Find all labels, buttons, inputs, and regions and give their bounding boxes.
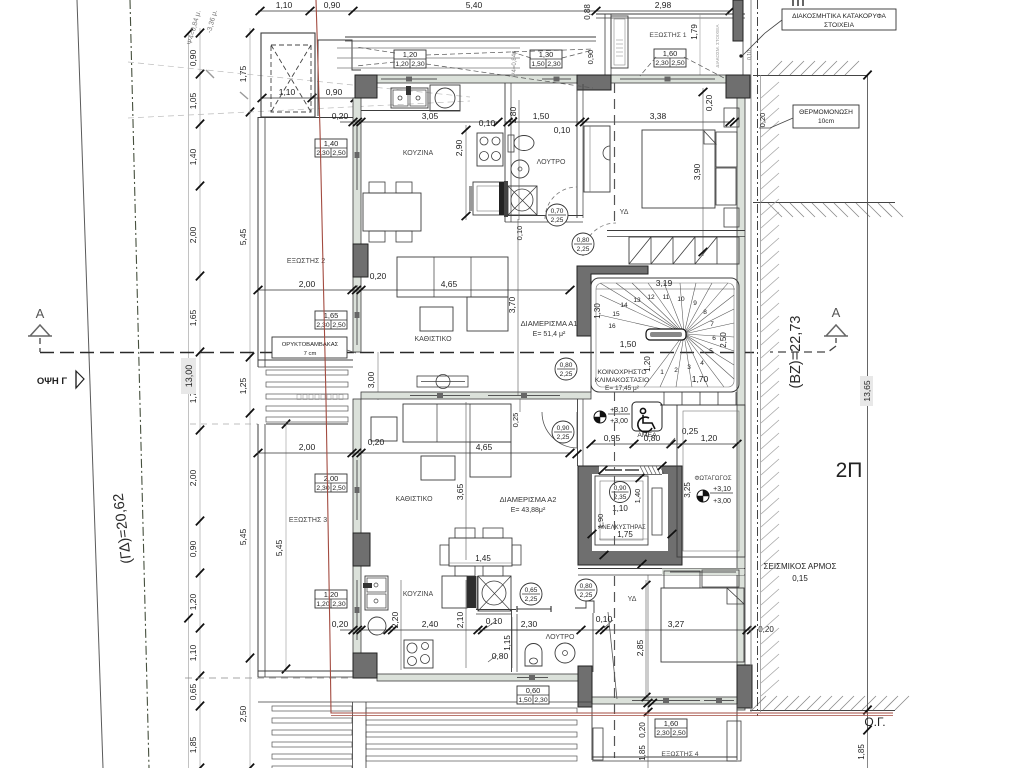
svg-text:E= 17,45 μ²: E= 17,45 μ² xyxy=(605,385,640,392)
svg-text:1,65: 1,65 xyxy=(324,311,339,320)
lower pergola right group xyxy=(366,708,577,713)
svg-text:ΚΑΘΙΣΤΙΚΟ: ΚΑΘΙΣΤΙΚΟ xyxy=(414,336,452,343)
balcony 1 side edges xyxy=(604,14,606,75)
svg-text:0,25: 0,25 xyxy=(682,426,699,436)
bath A2 door threshold xyxy=(517,608,551,610)
svg-text:2,30: 2,30 xyxy=(655,60,668,67)
window box 1,40 xyxy=(315,139,347,157)
shaft corner ticks xyxy=(599,466,608,474)
oven unit A1 xyxy=(473,182,504,215)
svg-text:1,30: 1,30 xyxy=(593,303,602,319)
west wall band A1 xyxy=(353,98,361,352)
slat detail marks xyxy=(297,395,301,400)
svg-text:2,30: 2,30 xyxy=(316,150,329,157)
dim 2,10 rotated xyxy=(465,580,467,668)
svg-text:1,70: 1,70 xyxy=(692,374,709,384)
armchair A2 xyxy=(371,417,397,441)
dim 3,65 rotated xyxy=(465,402,467,560)
plot boundary dash-dot line xyxy=(130,0,149,768)
svg-text:3,19: 3,19 xyxy=(656,278,673,288)
shower A1 xyxy=(508,186,537,215)
svg-text:0,90: 0,90 xyxy=(557,425,570,432)
washing machine A1 xyxy=(430,85,460,111)
svg-text:0,20: 0,20 xyxy=(368,437,385,447)
window box 1,60 balcony4 xyxy=(655,719,687,737)
svg-text:ΚΑΘΙΣΤΙΚΟ: ΚΑΘΙΣΤΙΚΟ xyxy=(395,496,433,503)
svg-text:1,20: 1,20 xyxy=(316,601,329,608)
neighbour line mid xyxy=(753,202,895,204)
svg-text:0,20: 0,20 xyxy=(370,271,387,281)
svg-text:2,25: 2,25 xyxy=(525,596,538,603)
dim row A2 kitchen xyxy=(340,629,581,631)
svg-text:3,00: 3,00 xyxy=(366,371,376,388)
bath A2 east wall xyxy=(592,613,594,672)
svg-text:0,90: 0,90 xyxy=(614,485,627,492)
svg-text:8: 8 xyxy=(703,309,707,316)
window sill marks west xyxy=(356,120,358,190)
column kitchen-entry xyxy=(577,75,611,90)
dashed extension line south A2 xyxy=(185,677,352,679)
svg-text:0,80: 0,80 xyxy=(492,651,509,661)
svg-text:(ΒΖ)=22,73: (ΒΖ)=22,73 xyxy=(788,316,804,389)
decorative elements label box xyxy=(782,9,896,30)
bed A2 xyxy=(661,588,744,662)
svg-text:3,38: 3,38 xyxy=(650,111,667,121)
spiral stair fan xyxy=(600,283,684,334)
dim 3,00 rotated near balcony xyxy=(377,352,379,400)
neighbour bottom edge xyxy=(750,710,895,712)
dim row A2 living xyxy=(258,452,570,454)
svg-text:3,65: 3,65 xyxy=(455,483,465,500)
svg-text:ΟΡΥΚΤΟΒΑΜΒΑΚΑΣ: ΟΡΥΚΤΟΒΑΜΒΑΚΑΣ xyxy=(282,342,339,348)
svg-text:10cm: 10cm xyxy=(818,118,835,125)
svg-text:1,45: 1,45 xyxy=(475,554,491,563)
light well level marker xyxy=(697,490,709,502)
svg-text:2,25: 2,25 xyxy=(560,371,573,378)
svg-text:0,20: 0,20 xyxy=(758,113,767,128)
structural L-wall stair xyxy=(577,266,648,336)
window sill marks south bedroom xyxy=(632,700,700,702)
radiator unit A1 xyxy=(417,376,468,387)
red regulation line xyxy=(316,0,893,713)
svg-text:0,65: 0,65 xyxy=(525,587,538,594)
toilet A2 xyxy=(525,644,542,667)
decorative label leader xyxy=(742,20,782,56)
svg-text:1,90: 1,90 xyxy=(596,514,605,529)
svg-text:3: 3 xyxy=(687,364,691,371)
svg-text:ΚΛΙΜΑΚΟΣΤΑΣΙΟ: ΚΛΙΜΑΚΟΣΤΑΣΙΟ xyxy=(595,377,650,384)
window box 1,20 top xyxy=(394,50,426,68)
svg-text:7 cm: 7 cm xyxy=(304,351,317,357)
svg-text:13,00: 13,00 xyxy=(184,365,194,388)
svg-text:2,50: 2,50 xyxy=(671,60,684,67)
svg-text:1,50: 1,50 xyxy=(533,111,550,121)
middle wall band between A1 and A2 xyxy=(361,392,591,399)
svg-text:0,90: 0,90 xyxy=(326,87,343,97)
kitchen table A1 xyxy=(363,193,421,231)
overall chain line 13,00 xyxy=(188,33,190,768)
svg-text:1,65: 1,65 xyxy=(188,309,198,326)
dim 13,65 rotated xyxy=(860,376,873,406)
svg-text:Ψ4=0,84μ: Ψ4=0,84μ xyxy=(512,50,518,78)
dining table A2 xyxy=(449,538,512,566)
svg-text:2,40: 2,40 xyxy=(422,619,439,629)
balcony 3 west edge xyxy=(257,424,259,677)
svg-text:2,30: 2,30 xyxy=(521,619,538,629)
straight stair flight xyxy=(629,237,739,264)
svg-text:+3,00: +3,00 xyxy=(713,498,731,505)
svg-text:ΦΩΤΑΓΩΓΟΣ: ΦΩΤΑΓΩΓΟΣ xyxy=(694,475,731,482)
svg-text:2,00: 2,00 xyxy=(299,279,316,289)
svg-text:ΚΟΙΝΟΧΡΗΣΤΟ: ΚΟΙΝΟΧΡΗΣΤΟ xyxy=(597,369,646,376)
entry recess outline top-left xyxy=(318,40,361,116)
sofa A2 xyxy=(403,404,511,442)
dimension chain 2 xyxy=(249,28,251,768)
svg-text:2,25: 2,25 xyxy=(551,217,564,224)
sofa chaise A1 xyxy=(467,297,508,331)
svg-text:0,20: 0,20 xyxy=(332,111,349,121)
svg-text:4,65: 4,65 xyxy=(476,442,493,452)
kitchen sink unit A2 xyxy=(365,576,388,610)
svg-text:2,50: 2,50 xyxy=(332,485,345,492)
svg-text:2,25: 2,25 xyxy=(577,246,590,253)
svg-text:0,65: 0,65 xyxy=(188,683,198,700)
east boundary solid xyxy=(750,0,752,712)
svg-text:2,30: 2,30 xyxy=(656,730,669,737)
thermal label leader xyxy=(759,118,793,128)
thermal insulation label box xyxy=(793,105,859,128)
north wall band kitchen xyxy=(377,75,577,83)
closet A1 bedroom xyxy=(584,126,610,192)
svg-text:1,50: 1,50 xyxy=(518,697,531,704)
svg-text:0,80: 0,80 xyxy=(560,362,573,369)
planter dashed X xyxy=(271,45,311,112)
dim 2,80 rotated xyxy=(518,100,520,220)
svg-text:2Π: 2Π xyxy=(836,459,863,482)
coffee table A2 xyxy=(421,456,455,480)
plot line east xyxy=(867,75,869,730)
south wall band A2 kitchen xyxy=(377,674,578,681)
svg-text:0,25: 0,25 xyxy=(511,413,520,428)
svg-text:ΚΟΥΖΙΝΑ: ΚΟΥΖΙΝΑ xyxy=(403,591,434,598)
window box 0,60 xyxy=(517,686,549,704)
elevator shaft walls xyxy=(578,466,682,565)
svg-text:0,20: 0,20 xyxy=(704,94,714,111)
svg-text:1,20: 1,20 xyxy=(701,433,718,443)
svg-text:4,65: 4,65 xyxy=(441,279,458,289)
svg-text:5: 5 xyxy=(709,348,713,355)
partition dashed bedroom xyxy=(614,83,616,223)
svg-text:0,80: 0,80 xyxy=(580,583,593,590)
column south A2 left xyxy=(578,666,592,707)
svg-text:ΛΟΥΤΡΟ: ΛΟΥΤΡΟ xyxy=(546,634,575,641)
svg-text:7: 7 xyxy=(710,321,714,328)
svg-text:12: 12 xyxy=(647,294,655,301)
svg-text:11: 11 xyxy=(663,294,670,301)
window box 1,60 top xyxy=(654,49,686,67)
svg-text:0,90: 0,90 xyxy=(188,540,198,557)
svg-text:2,50: 2,50 xyxy=(238,705,248,722)
svg-text:0,10: 0,10 xyxy=(515,226,524,241)
level marker vestibule xyxy=(594,411,606,423)
svg-text:1,60: 1,60 xyxy=(663,49,678,58)
nightstand A1 top xyxy=(724,108,739,127)
bathroom A1 east wall xyxy=(576,84,578,218)
column west mid xyxy=(353,244,368,277)
upper pergola slats xyxy=(337,47,520,49)
window sill marks middle band xyxy=(410,395,470,397)
svg-text:0,20: 0,20 xyxy=(332,619,349,629)
dim row A2 bedroom xyxy=(478,629,752,631)
svg-text:ΔΙΑΚΟΣΜΗΤΙΚΑ ΚΑΤΑΚΟΡΥΦΑ: ΔΙΑΚΟΣΜΗΤΙΚΑ ΚΑΤΑΚΟΡΥΦΑ xyxy=(792,13,886,20)
svg-text:1,50: 1,50 xyxy=(531,61,544,68)
projection leader dashed top-left xyxy=(128,62,470,97)
svg-text:2,85: 2,85 xyxy=(635,639,645,656)
dim row living A1 xyxy=(258,289,570,291)
dim 1,45 dining xyxy=(449,562,512,564)
svg-text:13,65: 13,65 xyxy=(862,380,872,402)
svg-text:3,70: 3,70 xyxy=(507,296,517,313)
svg-text:0,10: 0,10 xyxy=(554,125,571,135)
round basin A2 xyxy=(368,617,386,635)
stair wall upper xyxy=(607,230,745,232)
svg-text:E= 43,88μ²: E= 43,88μ² xyxy=(511,507,546,514)
svg-text:1,20: 1,20 xyxy=(403,50,418,59)
elevator door sill xyxy=(599,465,662,467)
svg-text:2,35: 2,35 xyxy=(614,494,627,501)
toilet A1 xyxy=(508,135,514,152)
balcony 2 west edge xyxy=(257,117,259,367)
cabinet A2 xyxy=(442,576,467,608)
svg-text:13: 13 xyxy=(633,297,641,304)
column west south xyxy=(353,653,377,678)
svg-text:ΟΨΗ Γ: ΟΨΗ Γ xyxy=(37,376,68,387)
svg-text:1,85: 1,85 xyxy=(638,745,647,761)
svg-text:1,20: 1,20 xyxy=(395,61,408,68)
dim 1,79 rotated xyxy=(699,14,701,75)
svg-text:3,05: 3,05 xyxy=(422,111,439,121)
hatch top neighbour xyxy=(768,61,782,75)
door circle 0,70 xyxy=(546,204,568,226)
svg-text:1,79: 1,79 xyxy=(690,24,699,40)
door arc A2 entry xyxy=(542,412,577,448)
svg-text:3,27: 3,27 xyxy=(668,619,685,629)
north wall band bedroom A1 xyxy=(611,75,726,83)
column top-right xyxy=(726,75,750,98)
window box 2,00 xyxy=(315,474,347,492)
svg-text:9: 9 xyxy=(693,300,697,307)
window box 1,65 xyxy=(315,311,347,329)
door circle elevator xyxy=(610,482,631,503)
dim 3,19 stair xyxy=(596,288,735,290)
west wall band A2 xyxy=(353,399,361,674)
hatch mid neighbour xyxy=(768,203,782,217)
svg-text:ΕΞΩΣΤΗΣ 2: ΕΞΩΣΤΗΣ 2 xyxy=(287,258,325,265)
svg-text:0,20: 0,20 xyxy=(638,722,647,738)
balcony 4 planters xyxy=(593,728,603,760)
svg-text:0,60: 0,60 xyxy=(526,686,541,695)
svg-text:1,20: 1,20 xyxy=(188,593,198,610)
svg-text:6: 6 xyxy=(712,335,716,342)
fridge dark A2 xyxy=(467,576,476,608)
kitchen counter A1 xyxy=(361,110,460,112)
svg-text:10: 10 xyxy=(677,296,685,303)
balcony 1 top edge xyxy=(596,13,745,15)
dim 2,85 rotated xyxy=(645,580,647,700)
svg-text:2,00: 2,00 xyxy=(188,469,198,486)
pergola slats above balcony3 xyxy=(266,370,348,375)
svg-text:1,30: 1,30 xyxy=(539,50,554,59)
balcony 1 planter xyxy=(611,16,628,68)
svg-text:ΥΔ: ΥΔ xyxy=(620,209,629,216)
dim row kitchen xyxy=(340,121,498,123)
svg-text:2,30: 2,30 xyxy=(534,697,547,704)
neighbour building top edge xyxy=(753,75,868,77)
bathroom A2 west wall xyxy=(476,576,478,609)
bed A1 xyxy=(642,130,715,208)
svg-text:2,50: 2,50 xyxy=(332,322,345,329)
svg-text:0,95: 0,95 xyxy=(604,433,621,443)
window sill marks north xyxy=(381,78,437,80)
svg-text:0,90: 0,90 xyxy=(586,50,595,65)
svg-text:0,88: 0,88 xyxy=(583,4,592,20)
svg-text:1,40: 1,40 xyxy=(633,489,642,504)
spiral newel xyxy=(646,329,686,340)
svg-text:16: 16 xyxy=(608,323,616,330)
svg-text:ΔΙΑΜΕΡΙΣΜΑ Α1: ΔΙΑΜΕΡΙΣΜΑ Α1 xyxy=(521,319,578,328)
balcony 3 bottom edge xyxy=(258,670,353,672)
lower pergola left group xyxy=(272,706,352,711)
dim row vestibule xyxy=(591,443,737,445)
svg-text:ΣΕΙΣΜΙΚΟΣ ΑΡΜΟΣ: ΣΕΙΣΜΙΚΟΣ ΑΡΜΟΣ xyxy=(764,562,837,571)
balcony 2 bottom edge xyxy=(258,359,353,361)
svg-text:ΣΤΟΙΧΕΙΑ: ΣΤΟΙΧΕΙΑ xyxy=(824,22,855,29)
svg-text:5,40: 5,40 xyxy=(466,0,483,10)
svg-text:2,90: 2,90 xyxy=(454,139,464,156)
dimension chain 3 balcony xyxy=(285,424,287,669)
leader lines from window boxes xyxy=(356,47,395,53)
svg-text:2,30: 2,30 xyxy=(411,61,424,68)
sofa A1 xyxy=(397,257,508,297)
elevator counterweight xyxy=(652,488,662,535)
dim 0,20 and 1,85 bottom xyxy=(647,575,649,768)
svg-text:1: 1 xyxy=(660,369,664,376)
washbasin A1 xyxy=(511,160,529,178)
svg-text:ΕΞΩΣΤΗΣ 1: ΕΞΩΣΤΗΣ 1 xyxy=(649,32,686,39)
sofa chaise A2 xyxy=(470,442,511,477)
svg-text:2,30: 2,30 xyxy=(316,322,329,329)
column south A2 right xyxy=(737,665,752,708)
column top-left xyxy=(355,75,377,98)
dim 0,25 rotated west xyxy=(519,399,521,412)
bathroom A1 west wall xyxy=(504,83,506,222)
svg-text:0,15: 0,15 xyxy=(792,574,808,583)
svg-text:ΔΙΑΜΕΡΙΣΜΑ Α2: ΔΙΑΜΕΡΙΣΜΑ Α2 xyxy=(500,495,557,504)
svg-text:1,60: 1,60 xyxy=(664,719,679,728)
svg-text:15: 15 xyxy=(612,311,620,318)
svg-text:E= 51,4 μ²: E= 51,4 μ² xyxy=(533,331,566,338)
svg-text:ΕΞΩΣΤΗΣ 3: ΕΞΩΣΤΗΣ 3 xyxy=(289,517,327,524)
hatch bottom neighbour xyxy=(752,696,766,710)
svg-text:ΚΟΥΖΙΝΑ: ΚΟΥΖΙΝΑ xyxy=(403,150,434,157)
dim 0,25 leader xyxy=(666,438,675,448)
svg-text:0,80: 0,80 xyxy=(577,237,590,244)
svg-text:ΔΙΑΚΟΣΜ. ΣΤΟΙΧΕΙΑ: ΔΙΑΚΟΣΜ. ΣΤΟΙΧΕΙΑ xyxy=(715,24,720,67)
property boundary line west xyxy=(77,0,103,768)
svg-text:+3,10: +3,10 xyxy=(610,407,628,414)
overall dimension 13,00 xyxy=(181,358,196,394)
svg-text:1,40: 1,40 xyxy=(188,148,198,165)
dim 2,20 rotated xyxy=(400,580,402,670)
svg-text:1,10: 1,10 xyxy=(276,0,293,10)
lower stair treads xyxy=(663,392,665,405)
door arc bedroom A1 xyxy=(583,223,616,256)
svg-text:2: 2 xyxy=(674,367,678,374)
bathroom A1 south wall xyxy=(505,215,583,217)
svg-text:2,30: 2,30 xyxy=(547,61,560,68)
dim 3,70 rotated xyxy=(517,219,519,395)
svg-text:4: 4 xyxy=(700,360,704,367)
elevator door dashes xyxy=(614,392,616,470)
east hatch band xyxy=(761,82,779,98)
pergola boundary lines xyxy=(258,701,592,703)
svg-text:ΛΟΥΤΡΟ: ΛΟΥΤΡΟ xyxy=(537,159,566,166)
svg-text:1,75: 1,75 xyxy=(617,530,633,539)
door circle 0,90 A2 entry xyxy=(552,421,574,443)
svg-text:+3,00: +3,00 xyxy=(610,418,628,425)
shower A2 xyxy=(478,576,511,611)
svg-text:1,85: 1,85 xyxy=(857,744,866,760)
svg-text:0,90: 0,90 xyxy=(188,49,198,66)
window box 1,20 south xyxy=(315,590,347,608)
svg-text:5,45: 5,45 xyxy=(238,228,248,245)
svg-text:A: A xyxy=(832,305,841,320)
mineral wool label box xyxy=(272,337,347,358)
svg-text:ΘΕΡΜΟΜΟΝΩΣΗ: ΘΕΡΜΟΜΟΝΩΣΗ xyxy=(799,109,853,116)
top dimension row xyxy=(258,10,731,12)
dim row bath xyxy=(505,121,730,123)
bed headboard cushions A1 xyxy=(716,132,737,167)
east wall band xyxy=(737,98,745,710)
window sill mark south A2 kitchen band xyxy=(517,677,548,679)
svg-text:2,98: 2,98 xyxy=(655,0,672,10)
svg-text:2,10: 2,10 xyxy=(455,611,465,628)
svg-text:0,80: 0,80 xyxy=(644,433,661,443)
second dim row 1,10 0,90 xyxy=(262,97,377,99)
svg-text:0,70: 0,70 xyxy=(551,208,564,215)
svg-text:1,50: 1,50 xyxy=(620,339,637,349)
svg-text:1,15: 1,15 xyxy=(503,635,512,651)
svg-text:2,00: 2,00 xyxy=(299,442,316,452)
III symbol xyxy=(792,0,794,6)
svg-text:5,45: 5,45 xyxy=(238,528,248,545)
svg-text:Ο.Γ.: Ο.Γ. xyxy=(864,715,885,729)
kitchen sink A1 xyxy=(391,88,428,108)
partition dashed A2 xyxy=(614,576,616,758)
svg-text:2,20: 2,20 xyxy=(390,611,400,628)
svg-text:0,10: 0,10 xyxy=(479,118,496,128)
svg-text:2,25: 2,25 xyxy=(557,434,570,441)
column balcony1 right xyxy=(733,0,743,41)
seismic joint dash-dot xyxy=(757,0,759,716)
svg-text:+3,10: +3,10 xyxy=(713,486,731,493)
svg-text:14: 14 xyxy=(620,302,628,309)
window sill marks north bedroom xyxy=(620,78,715,80)
vestibule west wall xyxy=(577,399,579,466)
svg-text:2,50: 2,50 xyxy=(672,730,685,737)
wall jog right of bath A2 xyxy=(575,601,594,613)
washbasin A2 xyxy=(555,643,575,663)
